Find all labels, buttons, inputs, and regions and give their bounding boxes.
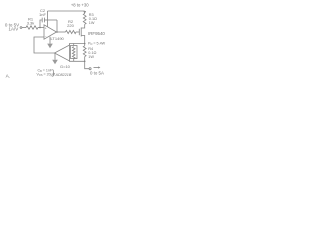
svg-text:G=10: G=10 [60,64,71,69]
svg-text:220: 220 [67,23,74,28]
resistor R1 3.3k zigzag [26,26,38,29]
node junction dot at +input [39,27,41,29]
wire top rail to G amp [70,44,85,46]
transistor Q1 drain stub [81,36,85,44]
current arrow 0 to 5A [94,67,99,69]
wire R2 to gate [76,31,79,33]
current arrowhead [98,66,100,68]
supply arrowhead down [83,11,86,14]
ground at G amp stem [54,53,56,60]
resistor R2 220 zigzag [66,30,77,33]
node VIN input terminal [20,27,22,29]
svg-text:−: − [45,35,47,39]
svg-text:1nF: 1nF [39,12,46,17]
wire R3 to MOSFET source [81,24,85,28]
wire R4 bottom to junction [84,57,86,62]
node drain junction dot [84,43,86,45]
wire drop to op-amp output [56,20,58,32]
wire R1 to op-amp + input [38,27,44,29]
transistor Q1 channel bar [80,28,82,37]
node output terminal circle [89,68,91,70]
wire V+ pin riser [47,11,49,27]
wire input to R1 [22,27,26,29]
transistor Q1 IRF9540 gate bar [78,29,80,35]
wire op-amp output to R2 [57,31,66,33]
capacitor C2 plates [42,18,44,23]
op-amp U2 G=10 triangle pointing left [55,45,70,61]
svg-text:+: + [45,26,47,30]
resistor R4 0.1ohm zigzag vertical [83,46,86,57]
wire output drop [85,61,89,68]
ground at G amp arrow [52,60,58,65]
ground under op-amp arrow [47,44,53,49]
svg-text:AD8221B: AD8221B [55,73,72,77]
wire riser junction to C2 [40,20,42,28]
wire supply rail top [48,10,85,12]
svg-text:0 to 5A: 0 to 5A [90,70,104,75]
svg-text:LT1490: LT1490 [51,36,65,41]
resistor R3 0.1ohm zigzag vertical [83,14,86,25]
wire C2 to output drop [44,19,57,21]
resistor RL zigzag inside box [72,47,75,59]
svg-text:PD = 5.4W: PD = 5.4W [88,42,106,47]
ground under op-amp stem [49,37,51,44]
wire bottom rail [70,60,85,62]
svg-text:1W: 1W [89,21,95,25]
wire -input feedback left [34,37,55,53]
svg-text:+8 to +30: +8 to +30 [71,3,89,8]
svg-text:1W: 1W [88,55,94,59]
load box rectangle [71,46,78,59]
wire R4 top stub [84,44,86,46]
op-amp U1 LT1490 triangle [44,25,57,39]
node junction dot at output [56,31,58,33]
wire box top stub [73,44,75,46]
wire box bottom stub [73,59,75,62]
svg-text:A.: A. [6,74,11,80]
svg-text:IRF9540: IRF9540 [88,31,105,36]
svg-text:1A/V: 1A/V [9,26,19,31]
node bottom junction dot [84,61,86,63]
svg-text:3.3k: 3.3k [27,20,35,25]
